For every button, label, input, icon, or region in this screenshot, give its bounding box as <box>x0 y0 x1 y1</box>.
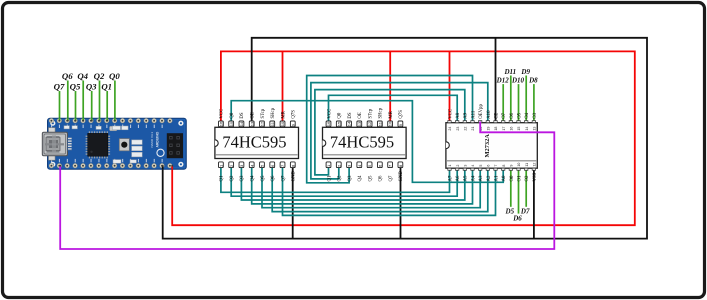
wire black IC3 pin12 VSS to bottom bus <box>533 170 535 239</box>
svg-text:10: 10 <box>517 163 521 167</box>
IC U1 pin 10 (MR) <box>280 110 286 126</box>
IC U3 pin 8 (A0) <box>501 165 507 182</box>
svg-text:13: 13 <box>533 127 537 131</box>
IC U1 pin 2 (Q2) <box>229 162 235 182</box>
IC U1 pin 3 (Q3) <box>239 162 245 182</box>
IC U2 pin 2 (Q2) <box>336 162 342 182</box>
svg-text:D7: D7 <box>520 208 530 216</box>
svg-text:NANO V3.1: NANO V3.1 <box>150 131 154 147</box>
IC U3 pin 12 (VSS) <box>532 163 538 182</box>
svg-text:Q3: Q3 <box>240 175 245 181</box>
wire green Arduino stub net Q4 <box>82 81 84 122</box>
svg-text:24: 24 <box>448 127 452 131</box>
wire black branch top bus to IC3 pin18 CE <box>495 38 497 121</box>
svg-text:1: 1 <box>448 165 452 167</box>
svg-text:74HC595: 74HC595 <box>222 133 286 152</box>
svg-text:VCC: VCC <box>448 109 453 119</box>
IC U3 pin 23 (A8) <box>455 112 461 130</box>
svg-text:10: 10 <box>280 121 285 126</box>
IC U1 pin 14 (DS) <box>239 112 245 127</box>
IC U1 pin 5 (Q5) <box>260 162 266 182</box>
svg-text:Q4: Q4 <box>77 71 88 81</box>
svg-text:O7: O7 <box>502 112 507 118</box>
Arduino SMD parts <box>64 126 142 164</box>
Arduino oscillator <box>110 126 118 131</box>
wire teal IC1 Q1 (pin1) -> IC3 A7 (pin1) <box>221 167 450 192</box>
svg-text:DS: DS <box>348 112 353 118</box>
IC U3 pin 24 (VCC) <box>448 109 454 131</box>
svg-text:O3: O3 <box>533 112 538 118</box>
wire purple tip into Arduino bottom hole <box>59 166 61 170</box>
Arduino mini-USB connector <box>42 128 72 161</box>
svg-text:13: 13 <box>357 121 362 126</box>
svg-text:10: 10 <box>388 121 393 126</box>
Arduino Nano board <box>48 118 187 169</box>
svg-text:A8: A8 <box>456 112 461 118</box>
IC U2 pin 12 (STcp) <box>367 108 373 126</box>
svg-text:A6: A6 <box>456 175 461 181</box>
svg-text:Q1: Q1 <box>220 175 225 181</box>
svg-text:16: 16 <box>219 121 224 126</box>
IC U1 pin 12 (STcp) <box>260 108 266 126</box>
svg-text:Q5: Q5 <box>368 175 373 181</box>
svg-text:Q7: Q7 <box>54 82 65 92</box>
IC U3 M2732A EPROM body <box>446 123 537 169</box>
svg-text:SHcp: SHcp <box>271 107 276 118</box>
wire teal IC1 Q6 (pin6) -> IC3 A2 (pin6) <box>272 167 488 212</box>
svg-text:OEVpp: OEVpp <box>479 104 484 119</box>
IC U3 pin 6 (A2) <box>486 165 492 182</box>
svg-text:4: 4 <box>471 165 475 167</box>
wire green Arduino stub net Q3 <box>91 91 93 121</box>
Arduino logo and silkscreen text <box>157 149 164 156</box>
svg-text:17: 17 <box>502 127 506 131</box>
IC U3 pin 15 (O5) <box>517 112 523 130</box>
svg-text:M2732A: M2732A <box>484 134 491 158</box>
IC U2 pin 3 (Q3) <box>347 162 353 182</box>
svg-text:7: 7 <box>494 165 498 167</box>
wire green Arduino stub net Q0 <box>114 81 116 122</box>
IC U2 pin 8 (GND) <box>398 162 404 182</box>
IC U2 pin 13 (OE) <box>357 112 363 127</box>
svg-text:VCC: VCC <box>220 109 225 119</box>
svg-text:O1: O1 <box>517 175 522 181</box>
wire teal IC2 pin16 -> IC3 A8 (pin23) <box>329 95 458 121</box>
svg-text:D9: D9 <box>520 68 530 76</box>
wire green tips into Arduino top holes <box>59 118 61 121</box>
svg-text:15: 15 <box>229 121 234 126</box>
svg-text:18: 18 <box>494 127 498 131</box>
svg-text:Q7: Q7 <box>389 175 394 181</box>
IC U2 pin 1 (Q1) <box>326 162 332 182</box>
wire green Arduino stub net Q7 <box>59 91 61 121</box>
wire teal IC1 Q0 (pin15) -> IC3 A0 (pin8) <box>231 101 503 183</box>
wire green IC3 stub net D9 <box>525 76 527 122</box>
wire teal IC1 Q7 (pin7) -> IC3 A1 (pin7) <box>283 167 496 215</box>
wire teal IC1 Q3 (pin3) -> IC3 A5 (pin3) <box>241 167 464 200</box>
IC U3 pin 22 (A9) <box>463 112 469 130</box>
wire red branch to IC3 pin24 VCC <box>449 51 451 121</box>
svg-text:14: 14 <box>347 121 352 126</box>
IC U1 pin 1 (Q1) <box>219 162 225 182</box>
IC U2 pin 4 (Q4) <box>357 162 363 182</box>
svg-text:Q6: Q6 <box>379 175 384 181</box>
svg-text:A11: A11 <box>471 110 476 119</box>
wire green IC3 stub net D10 <box>518 84 520 121</box>
svg-text:16: 16 <box>326 121 331 126</box>
IC U3 pin 7 (A1) <box>494 165 500 182</box>
svg-text:GND: GND <box>292 171 297 182</box>
svg-text:3: 3 <box>464 165 468 167</box>
IC U1 74HC595 body <box>215 127 299 158</box>
svg-text:STcp: STcp <box>368 108 373 118</box>
svg-text:Q2: Q2 <box>338 175 343 181</box>
svg-text:A4: A4 <box>471 175 476 181</box>
IC U2 pin 10 (MR) <box>388 110 394 126</box>
svg-text:O4: O4 <box>525 112 530 118</box>
wire green Arduino stub net Q5 <box>75 91 77 121</box>
svg-text:15: 15 <box>517 127 521 131</box>
wire red tip into Arduino bottom hole <box>171 166 173 170</box>
IC U3 pin 11 (O2) <box>525 163 531 182</box>
svg-text:D8: D8 <box>528 77 538 85</box>
wire red branch to IC1 pin10 MR <box>282 51 284 121</box>
IC U3 pin 20 (OEVpp) <box>478 104 484 131</box>
svg-text:13: 13 <box>249 121 254 126</box>
svg-text:ARDUINO: ARDUINO <box>155 131 159 147</box>
svg-text:O0: O0 <box>510 175 515 181</box>
svg-text:21: 21 <box>471 127 475 131</box>
svg-text:11: 11 <box>525 163 529 167</box>
IC U2 pin 16 (VCC) <box>326 109 332 127</box>
wire teal IC1 Q5 (pin5) -> IC3 A3 (pin5) <box>262 167 480 208</box>
wire teal IC1 Q2 (pin2) -> IC3 A6 (pin2) <box>231 167 457 196</box>
IC U1 pin 16 (VCC) <box>219 109 225 127</box>
IC U3 pin 9 (O0) <box>509 165 515 182</box>
IC U1 pin 4 (Q4) <box>249 162 255 182</box>
svg-text:9: 9 <box>510 165 514 167</box>
svg-text:19: 19 <box>487 127 491 131</box>
svg-text:23: 23 <box>456 127 460 131</box>
IC U1 pin 8 (GND) <box>290 162 296 182</box>
wire green Arduino stub net Q2 <box>99 81 101 122</box>
svg-text:15: 15 <box>336 121 341 126</box>
svg-text:6: 6 <box>487 165 491 167</box>
IC U3 pin 13 (O3) <box>532 112 538 130</box>
svg-text:DS: DS <box>240 112 245 118</box>
IC U3 pin 21 (A11) <box>471 110 477 130</box>
svg-text:STcp: STcp <box>261 108 266 118</box>
wire black tip into Arduino bottom hole <box>162 166 164 170</box>
svg-text:14: 14 <box>525 127 529 131</box>
IC U3 pin 18 (CE) <box>494 113 500 131</box>
svg-text:2: 2 <box>456 165 460 167</box>
IC U1 pin 9 (Q7S) <box>290 110 296 127</box>
svg-text:Q1: Q1 <box>101 82 112 92</box>
IC U3 pin 2 (A6) <box>455 165 461 182</box>
svg-text:MR: MR <box>281 110 286 118</box>
svg-text:OE: OE <box>251 112 256 118</box>
svg-text:OE: OE <box>358 112 363 118</box>
svg-text:D10: D10 <box>511 77 525 85</box>
svg-text:Q3: Q3 <box>348 175 353 181</box>
svg-text:Q2: Q2 <box>94 71 105 81</box>
svg-text:SHcp: SHcp <box>379 107 384 118</box>
svg-text:Q5: Q5 <box>70 82 81 92</box>
svg-text:A5: A5 <box>464 175 469 181</box>
IC U2 pin 5 (Q5) <box>367 162 373 182</box>
IC U3 pin 14 (O4) <box>525 112 531 130</box>
svg-text:VCC: VCC <box>327 109 332 119</box>
IC U1 pin 15 (Q0) <box>229 112 235 127</box>
IC U3 pin 17 (O7) <box>501 112 507 130</box>
svg-text:A1: A1 <box>494 175 499 181</box>
wire black IC2 pin8 GND to bottom bus <box>400 167 402 239</box>
svg-text:O6: O6 <box>510 112 515 118</box>
wire red branch to IC2 pin10 MR <box>389 51 391 121</box>
svg-text:O2: O2 <box>525 175 530 181</box>
svg-text:14: 14 <box>239 121 244 126</box>
svg-text:GND: GND <box>399 171 404 182</box>
svg-text:D11: D11 <box>503 68 516 76</box>
svg-text:Q1: Q1 <box>327 175 332 181</box>
IC U3 pin 5 (A3) <box>478 165 484 182</box>
wire green Arduino stub net Q1 <box>106 91 108 121</box>
wire black IC1 pin8 GND to bottom bus <box>292 167 294 239</box>
svg-text:Q6: Q6 <box>271 175 276 181</box>
wire teal IC1 Q4 (pin4) -> IC3 A4 (pin4) <box>252 167 473 204</box>
svg-text:16: 16 <box>510 127 514 131</box>
svg-text:Q7: Q7 <box>281 175 286 181</box>
svg-text:Q0: Q0 <box>109 71 120 81</box>
svg-text:Q7S: Q7S <box>292 110 297 119</box>
svg-text:A3: A3 <box>479 175 484 181</box>
svg-text:Q4: Q4 <box>358 175 363 181</box>
IC U2 pin 11 (SHcp) <box>377 107 383 126</box>
wire green IC3 bottom stub net D7 <box>525 170 527 207</box>
svg-text:CE: CE <box>494 113 499 119</box>
IC U3 pin 16 (O6) <box>509 112 515 130</box>
svg-text:Q0: Q0 <box>230 112 235 118</box>
IC U2 pin 14 (DS) <box>347 112 353 127</box>
IC U3 pin 19 (A10) <box>486 110 492 131</box>
wire green IC3 stub net D11 <box>510 76 512 122</box>
IC U2 74HC595 body <box>323 127 407 158</box>
wire teal IC2 Q2 (pin2) -> IC3 A10 (pin19) <box>311 83 488 179</box>
svg-text:VSS: VSS <box>533 172 538 181</box>
IC U3 pin 1 (A7) <box>448 165 454 182</box>
IC U2 pin 15 (Q0) <box>336 112 342 127</box>
IC U3 pin 4 (A4) <box>471 165 477 182</box>
IC U3 pin 3 (A5) <box>463 165 469 182</box>
IC U1 pin 11 (SHcp) <box>270 107 276 126</box>
svg-text:Q7S: Q7S <box>399 110 404 119</box>
svg-text:74HC595: 74HC595 <box>330 133 394 152</box>
IC U2 pin 6 (Q6) <box>377 162 383 182</box>
Arduino reset button <box>119 139 129 151</box>
Arduino MCU ATmega328 <box>86 131 111 158</box>
svg-text:Q4: Q4 <box>251 175 256 181</box>
svg-text:D12: D12 <box>496 77 510 85</box>
svg-text:12: 12 <box>367 121 372 126</box>
svg-text:Q5: Q5 <box>261 175 266 181</box>
wire green IC3 bottom stub net D6 <box>518 170 520 214</box>
wire green IC3 stub net D12 <box>502 84 504 121</box>
Arduino ICSP header <box>167 133 183 158</box>
IC U1 pin 7 (Q7) <box>280 162 286 182</box>
wire green IC3 bottom stub net D5 <box>510 170 512 207</box>
svg-text:A2: A2 <box>487 175 492 181</box>
wire red 5V bus: Arduino 5V -> bottom bus -> right riser -> top bus -> IC1 pin16 <box>172 51 635 225</box>
svg-text:A10: A10 <box>487 110 492 119</box>
svg-text:Q0: Q0 <box>338 112 343 118</box>
svg-text:12: 12 <box>260 121 265 126</box>
svg-text:8: 8 <box>502 165 506 167</box>
svg-text:12: 12 <box>533 163 537 167</box>
IC U1 pin 13 (OE) <box>249 112 255 127</box>
svg-text:A9: A9 <box>464 112 469 118</box>
svg-text:Q6: Q6 <box>62 71 73 81</box>
wire teal IC2 Q3 (pin3) -> IC3 A11 (pin21) <box>307 76 473 183</box>
wire purple: Arduino D10 -> bottom -> right of IC3 -> IC3 pin20 OE/Vpp <box>60 122 554 250</box>
IC U3 pin 10 (O1) <box>517 163 523 182</box>
wire green IC3 stub net D8 <box>533 84 535 121</box>
wire green Arduino stub net Q6 <box>67 81 69 122</box>
IC U2 pin 7 (Q7) <box>388 162 394 182</box>
svg-text:MR: MR <box>389 110 394 118</box>
IC U2 pin 9 (Q7S) <box>398 110 404 127</box>
svg-text:A0: A0 <box>502 175 507 181</box>
svg-text:5: 5 <box>479 165 483 167</box>
wire black GND bus: IC1 pin13 -> top bus -> right riser -> bottom bus -> Arduino GND <box>163 38 647 239</box>
IC U1 pin 6 (Q6) <box>270 162 276 182</box>
svg-text:22: 22 <box>464 127 468 131</box>
svg-text:Q3: Q3 <box>86 82 97 92</box>
svg-text:A7: A7 <box>448 175 453 181</box>
svg-text:Q2: Q2 <box>230 175 235 181</box>
wire teal IC2 Q1 (pin1) -> IC3 A9 (pin22) <box>315 90 465 175</box>
svg-text:O5: O5 <box>517 112 522 118</box>
